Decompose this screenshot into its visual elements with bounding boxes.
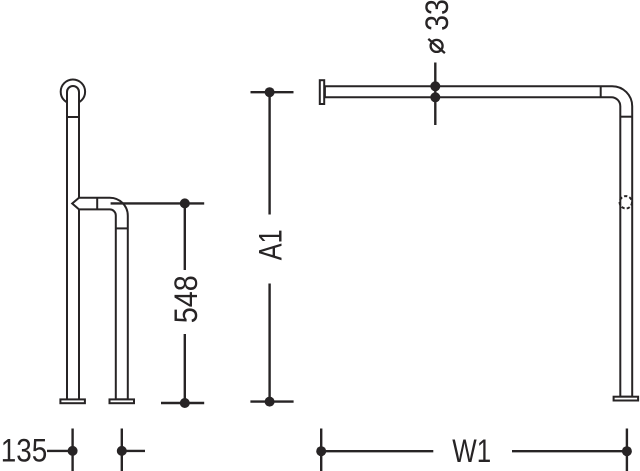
svg-text:548: 548 <box>168 275 204 323</box>
svg-text:W1: W1 <box>452 433 491 469</box>
svg-text:A1: A1 <box>254 229 290 260</box>
svg-text:135: 135 <box>1 434 47 469</box>
svg-text:33: 33 <box>419 0 455 31</box>
